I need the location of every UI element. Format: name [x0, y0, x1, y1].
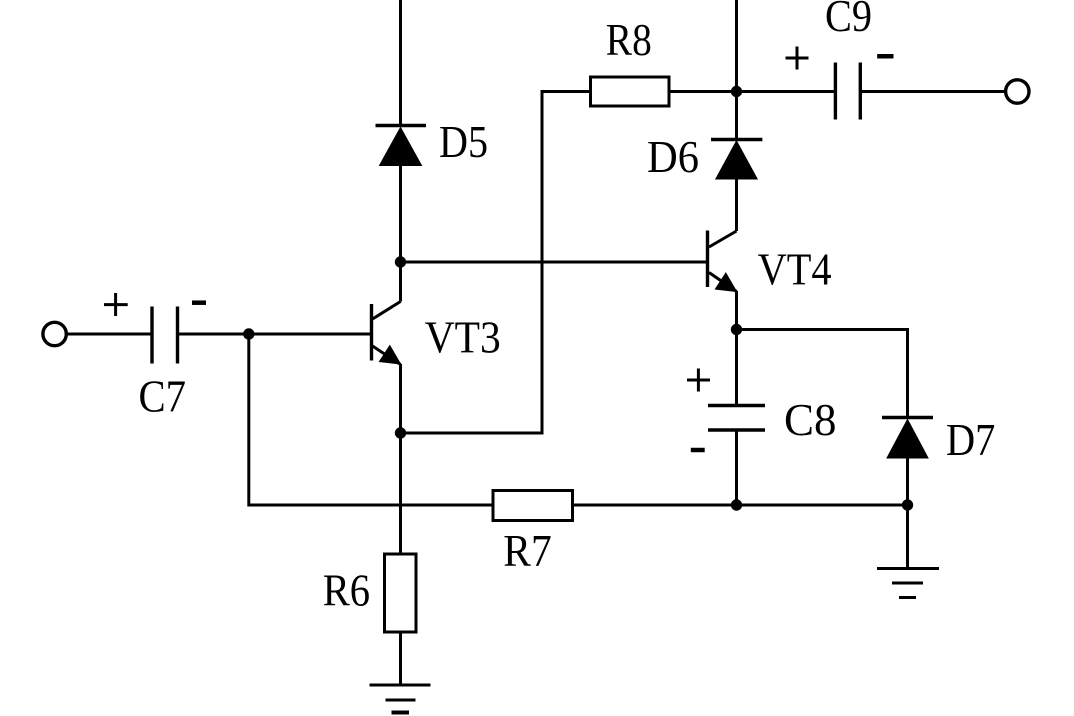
node C (VT4 collector rail / R8 / C9) — [731, 86, 742, 97]
wire bottom rail right segment — [573, 504, 908, 507]
C8 minus sign — [691, 448, 705, 453]
C9 plus sign — [786, 47, 809, 70]
wire R8 right to C9 — [669, 90, 834, 93]
wire input to C7 — [68, 333, 151, 336]
wire C9 to output — [862, 90, 1005, 93]
diode D5 — [376, 126, 427, 166]
C8 plus sign — [687, 369, 710, 392]
wire node D to D7 branch — [737, 328, 908, 331]
C7 plus sign — [104, 293, 128, 316]
node F (C8 / bottom rail) — [731, 499, 742, 510]
wire D5 to VT3 collector — [399, 165, 402, 302]
node D (VT4 emitter) — [731, 324, 742, 335]
wire VT3 base — [179, 333, 373, 336]
wire node B to feedback riser — [401, 432, 543, 435]
diode D6 — [711, 140, 762, 180]
svg-text:D5: D5 — [439, 117, 488, 167]
capacitor C7 — [152, 307, 178, 364]
wire input branch down — [247, 334, 250, 507]
wire bottom rail left segment — [249, 504, 493, 507]
resistor R8 — [591, 77, 670, 106]
capacitor C9 — [835, 63, 860, 120]
wire riser to R8 left — [541, 90, 591, 93]
svg-text:R8: R8 — [606, 15, 652, 65]
transistor VT4 — [708, 231, 737, 292]
wire VT4 collector rail top — [735, 0, 738, 140]
C9 minus sign — [877, 54, 893, 59]
wire feedback riser to R8 — [541, 92, 544, 435]
svg-text:VT3: VT3 — [425, 312, 501, 362]
ground under R6 — [370, 685, 431, 713]
ground under D7 — [877, 569, 939, 598]
wire D7 to ground — [906, 457, 909, 569]
wire node A to VT4 base — [401, 261, 710, 264]
svg-text:R7: R7 — [503, 526, 551, 576]
svg-text:C8: C8 — [784, 395, 837, 445]
wire C8 to bottom rail — [735, 430, 738, 505]
node E (D7 / bottom rail) — [902, 499, 913, 510]
transistor VT3 — [372, 302, 401, 365]
wire collector rail VT3 top — [399, 0, 402, 126]
svg-text:D7: D7 — [946, 415, 995, 465]
node G (input / C7) — [243, 328, 254, 339]
svg-text:VT4: VT4 — [758, 244, 832, 294]
node A (VT3 collector / D5 / VT4 base net) — [395, 256, 406, 267]
node B (VT3 emitter) — [395, 427, 406, 438]
wire VT3 emitter down to R6 — [399, 364, 402, 554]
input terminal — [43, 322, 66, 345]
wire R6 to ground — [399, 632, 402, 685]
wire VT4 emitter down to C8 — [735, 291, 738, 406]
svg-text:R6: R6 — [323, 565, 370, 615]
wire D7 branch down — [906, 328, 909, 418]
diode D7 — [882, 418, 933, 459]
capacitor C8 — [708, 406, 765, 431]
resistor R6 — [385, 554, 417, 632]
svg-text:D6: D6 — [647, 132, 699, 182]
resistor R7 — [493, 491, 573, 521]
svg-text:C9: C9 — [825, 0, 872, 41]
svg-text:C7: C7 — [139, 372, 187, 422]
output terminal — [1006, 80, 1029, 103]
wire D6 to VT4 collector — [735, 178, 738, 231]
C7 minus sign — [192, 300, 206, 305]
